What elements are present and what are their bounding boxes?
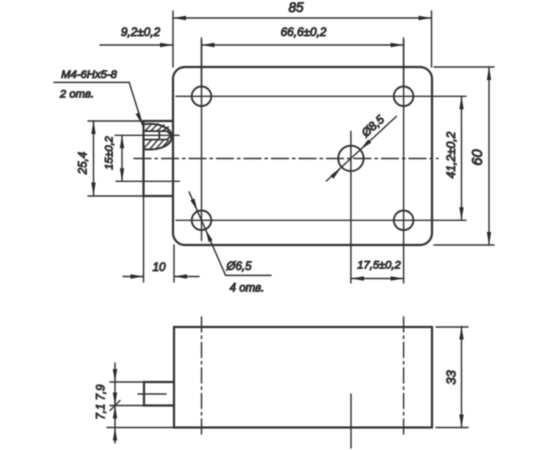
center hole [338, 146, 363, 171]
right hole column line [403, 40, 405, 283]
svg-text:33: 33 [444, 370, 459, 385]
left column centerline (bottom view) [201, 317, 203, 436]
svg-text:2 отв.: 2 отв. [59, 89, 94, 101]
svg-text:17,5±0,2: 17,5±0,2 [357, 260, 401, 272]
hole top-right [394, 87, 414, 107]
hole bottom-left [192, 211, 212, 231]
dim 7,1 / 7,9 [107, 363, 174, 443]
dim 10 [123, 196, 199, 282]
dim 41,2±0,2 [459, 96, 463, 220]
dim 60 [434, 67, 494, 245]
bottom hole row line [176, 219, 466, 221]
svg-text:85: 85 [288, 0, 304, 15]
boss axis (bottom view) [138, 393, 166, 395]
dim 9,2±0,2 [100, 43, 173, 47]
svg-text:15±0,2: 15±0,2 [104, 136, 116, 170]
dim 66,6±0,2 [202, 38, 404, 86]
thread hole lines [144, 131, 172, 140]
svg-text:M4-6Hx5-8: M4-6Hx5-8 [61, 69, 118, 81]
hole bottom-right [394, 211, 414, 231]
left hole column line [201, 40, 203, 241]
boss lug (bottom view) [144, 382, 174, 406]
svg-text:25,4: 25,4 [78, 152, 90, 175]
dim 33 [436, 327, 468, 428]
svg-text:Ø6,5: Ø6,5 [226, 261, 253, 273]
hole top-left [192, 87, 212, 107]
svg-text:41,2±0,2: 41,2±0,2 [444, 131, 458, 178]
dim 85 [173, 11, 432, 67]
dim 15±0,2 [120, 135, 124, 181]
hatching of boss section [145, 124, 169, 150]
axis of second M4 hole (lower) [116, 180, 179, 182]
plate outline (top view) [173, 67, 432, 245]
center hole projection line (bottom view) [350, 394, 352, 448]
svg-text:9,2±0,2: 9,2±0,2 [121, 25, 161, 39]
svg-text:10: 10 [152, 260, 166, 274]
leader M4 thread [54, 82, 143, 125]
axis of M4 hole (upper) [115, 134, 179, 136]
svg-text:60: 60 [470, 149, 486, 165]
thread boss dome M4 (section) [144, 124, 172, 150]
svg-text:7,1 7,9: 7,1 7,9 [96, 384, 108, 420]
body outline (bottom view) [174, 327, 432, 428]
horizontal centerline (dash-dot) [134, 158, 438, 160]
boss lug (left protrusion, top view) [144, 121, 174, 196]
svg-text:4 отв.: 4 отв. [230, 283, 265, 295]
svg-text:66,6±0,2: 66,6±0,2 [281, 25, 327, 39]
right column centerline (bottom view) [403, 317, 405, 436]
center hole vertical line [350, 131, 352, 283]
dim 17,5±0,2 [351, 276, 404, 280]
dim 25,4 [88, 121, 144, 196]
leader Ø8,5 (center hole) [326, 116, 396, 181]
top hole row line [176, 95, 466, 97]
leader Ø6,5 (corner holes) [189, 192, 271, 276]
svg-text:Ø8,5: Ø8,5 [358, 112, 387, 140]
